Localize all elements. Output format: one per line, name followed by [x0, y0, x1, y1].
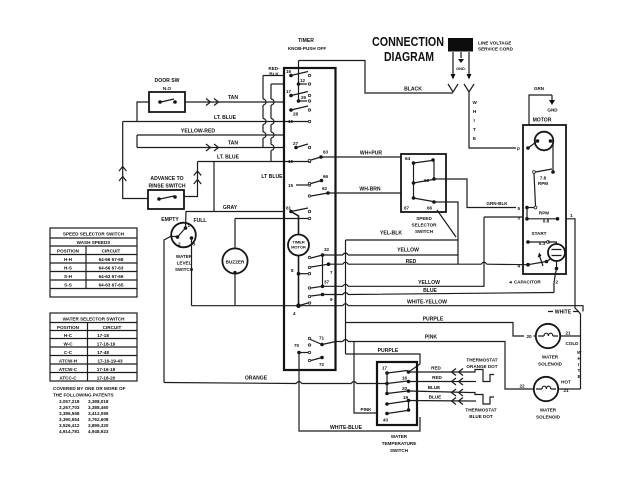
node patents list [53, 386, 126, 434]
svg-text:70: 70 [294, 343, 300, 348]
switch S1 door switch [149, 78, 185, 112]
svg-text:SWITCH: SWITCH [415, 229, 434, 234]
svg-text:3,762,608: 3,762,608 [88, 417, 109, 422]
svg-text:BLACK: BLACK [404, 87, 422, 93]
wire ORANGE water level to temp switch [164, 376, 387, 384]
svg-text:BLUE DOT: BLUE DOT [469, 414, 493, 419]
svg-text:SOLENOID: SOLENOID [536, 415, 561, 420]
svg-text:4: 4 [293, 311, 296, 316]
svg-text:KNOB-PUSH OFF: KNOB-PUSH OFF [288, 46, 326, 51]
svg-text:17: 17 [286, 89, 292, 94]
svg-text:15: 15 [288, 183, 294, 188]
svg-text:4,914,781: 4,914,781 [59, 429, 80, 434]
svg-text:TAN: TAN [228, 141, 238, 147]
svg-text:YEL-BLK: YEL-BLK [380, 231, 402, 237]
svg-text:17-18-19: 17-18-19 [97, 342, 116, 347]
svg-text:17: 17 [382, 366, 388, 371]
svg-text:SPEED: SPEED [416, 216, 432, 221]
table water selector switch [50, 313, 137, 381]
svg-text:ATCC-C: ATCC-C [59, 376, 77, 381]
node timer terminal 15 upper [284, 119, 311, 124]
svg-text:64-63 67-66: 64-63 67-66 [99, 274, 124, 279]
wire WH-BRN timer 62 to speed switch [328, 187, 401, 194]
svg-text:PURPLE: PURPLE [423, 317, 444, 323]
svg-text:3,386,568: 3,386,568 [59, 411, 80, 416]
svg-text:THERMOSTAT: THERMOSTAT [466, 358, 497, 363]
svg-text:YELLOW-RED: YELLOW-RED [181, 129, 215, 135]
svg-text:3,057,218: 3,057,218 [59, 399, 80, 404]
svg-text:CIRCUIT: CIRCUIT [102, 249, 121, 254]
svg-text:17-48: 17-48 [97, 350, 109, 355]
svg-text:16: 16 [286, 69, 292, 74]
wire riser to purple branch [345, 240, 347, 354]
svg-text:THE FOLLOWING PATENTS: THE FOLLOWING PATENTS [53, 393, 114, 398]
wire WHITE lead vertical to motor P [469, 92, 516, 148]
svg-text:LINE VOLTAGE: LINE VOLTAGE [478, 41, 511, 46]
svg-text:64-66 67-68: 64-66 67-68 [99, 257, 124, 262]
switch S5 water temperature switch [377, 362, 417, 453]
svg-text:22: 22 [519, 384, 525, 389]
wire PINK branch to temp switch 43 [354, 342, 377, 414]
svg-text:LT BLUE: LT BLUE [261, 174, 283, 180]
switch S4 water level switch [161, 217, 206, 272]
svg-text:RINSE SWITCH: RINSE SWITCH [148, 184, 185, 190]
svg-text:17-16-19: 17-16-19 [97, 367, 116, 372]
node timer terminal 62 [308, 186, 330, 197]
svg-text:GRAY: GRAY [223, 205, 238, 211]
svg-text:64-63 67-65: 64-63 67-65 [99, 283, 124, 288]
svg-text:3: 3 [193, 242, 196, 247]
wire BLUE temp switch to thermostat lower [409, 395, 471, 405]
node motor terminal P with protector [517, 132, 553, 152]
svg-text:E: E [473, 136, 476, 141]
node timer terminal 72 [308, 356, 324, 367]
wire service cord white lead arrow [467, 52, 472, 80]
wire common line to timer 4 and white-yellow [192, 300, 584, 312]
node timer terminal 9 [308, 293, 333, 302]
svg-text:WATER: WATER [540, 408, 557, 413]
svg-text:SPEED SELECTOR SWITCH: SPEED SELECTOR SWITCH [63, 232, 125, 237]
svg-text:YELLOW: YELLOW [397, 248, 419, 254]
ground GND of service cord [456, 52, 466, 71]
svg-text:LEVEL: LEVEL [177, 261, 192, 266]
svg-text:ADVANCE TO: ADVANCE TO [150, 176, 183, 182]
svg-text:GRN-BLK: GRN-BLK [486, 201, 508, 206]
wire WHITE-BLUE timer 70 to temp switch [299, 353, 420, 432]
svg-text:BUZZER: BUZZER [226, 260, 245, 265]
svg-text:RPM: RPM [539, 211, 549, 216]
svg-text:66: 66 [323, 174, 329, 179]
svg-text:PURPLE: PURPLE [378, 348, 399, 354]
svg-text:66: 66 [427, 206, 433, 211]
svg-text:CONNECTION: CONNECTION [372, 35, 444, 49]
wire BLACK from timer to service cord [299, 61, 454, 94]
svg-text:ATCW-H: ATCW-H [59, 359, 78, 364]
svg-text:RPM: RPM [538, 181, 548, 186]
node Y-junction white lead [464, 84, 474, 92]
buzzer BZ1 [222, 219, 284, 306]
svg-text:SELECTOR: SELECTOR [412, 223, 438, 228]
node timer terminal 15 lower [288, 183, 311, 188]
svg-text:WHITE-BLUE: WHITE-BLUE [330, 425, 363, 431]
wire YELLOW timer 37 to motor 3 [323, 217, 485, 286]
svg-text:ATCW-C: ATCW-C [59, 367, 78, 372]
node timer terminal 28 [289, 106, 310, 117]
node motor terminal 1 [566, 213, 579, 312]
svg-text:SWITCH: SWITCH [390, 448, 409, 453]
svg-text:3,388,018: 3,388,018 [88, 399, 109, 404]
wire WHITE to solenoids [548, 310, 582, 390]
svg-text:DIAGRAM: DIAGRAM [384, 50, 434, 64]
svg-text:1: 1 [188, 223, 191, 228]
svg-text:3,390,554: 3,390,554 [59, 417, 80, 422]
svg-text:67: 67 [404, 206, 410, 211]
wire left riser with connector arrows [119, 122, 148, 199]
svg-text:RED-: RED- [268, 66, 280, 71]
svg-text:POSITION: POSITION [57, 249, 80, 254]
svg-text:GRN: GRN [534, 86, 545, 91]
wire service cord black lead arrow [451, 52, 456, 80]
thermostat TH2 blue dot [465, 393, 496, 420]
svg-text:9: 9 [330, 297, 333, 302]
svg-text:3,412,095: 3,412,095 [88, 411, 109, 416]
svg-text:72: 72 [319, 362, 325, 367]
node timer terminal 16 [286, 69, 311, 77]
svg-text:START: START [532, 231, 547, 236]
node motor terminal 3 with RPM contact [484, 208, 559, 224]
svg-text:P: P [517, 147, 520, 152]
switch motor speed contact 7.8 RPM [533, 141, 555, 206]
svg-text:WH-BRN: WH-BRN [359, 187, 381, 193]
wire speed switch 65 to motor 5 GRN-BLK [446, 179, 516, 208]
node timer terminal 71 [308, 336, 324, 347]
svg-text:LT. BLUE: LT. BLUE [217, 155, 240, 161]
wire door switch left drop [137, 102, 149, 122]
node timer terminal 70 [294, 343, 311, 354]
wire YELLOW-RED to timer [137, 129, 284, 148]
svg-text:ORANGE: ORANGE [245, 376, 268, 382]
svg-text:H-C: H-C [64, 333, 73, 338]
svg-text:4,948,923: 4,948,923 [88, 429, 109, 434]
wire PURPLE branch to temp switch [346, 348, 421, 371]
svg-text:LT. BLUE: LT. BLUE [214, 115, 237, 121]
svg-text:17-16-19-43: 17-16-19-43 [97, 359, 122, 364]
wire BLUE temp switch to thermostat upper [409, 385, 471, 396]
svg-text:21: 21 [565, 331, 571, 336]
svg-text:GND: GND [547, 108, 558, 113]
solenoid L1 cold water solenoid [524, 324, 581, 367]
svg-text:3,526,412: 3,526,412 [59, 423, 80, 428]
svg-text:2: 2 [556, 280, 559, 285]
svg-text:WHITE: WHITE [555, 310, 572, 316]
node timer terminal 8 [291, 268, 311, 276]
wire PURPLE timer to cold solenoid 20 [346, 317, 537, 337]
node timer terminal 61 [284, 206, 311, 220]
wire water level 2 drop to orange [164, 237, 177, 383]
svg-text:CIRCUIT: CIRCUIT [103, 325, 122, 330]
svg-text:DOOR SW: DOOR SW [155, 78, 180, 84]
wire WH-PUR timer 63 to speed switch [321, 151, 401, 158]
node motor terminal 4 [518, 253, 552, 269]
wire water level 3 drop to timer 4 line [191, 238, 193, 306]
svg-text:21: 21 [563, 388, 569, 393]
svg-text:5: 5 [518, 206, 521, 211]
svg-text:C-C: C-C [64, 350, 73, 355]
wire riser B left of timer [271, 84, 284, 162]
table speed selector switch [50, 228, 137, 297]
svg-text:3,388,460: 3,388,460 [88, 405, 109, 410]
svg-text:20: 20 [402, 386, 408, 391]
node timer terminal 66 [308, 174, 328, 185]
thermostat TH1 orange dot [466, 358, 497, 382]
svg-text:2: 2 [178, 242, 181, 247]
node timer terminal 27 [293, 141, 311, 149]
svg-text:12: 12 [300, 78, 306, 83]
svg-text:71: 71 [319, 336, 325, 341]
svg-text:BLUE: BLUE [423, 288, 437, 294]
svg-text:THERMOSTAT: THERMOSTAT [465, 408, 496, 413]
switch motor start contact [526, 231, 549, 246]
svg-text:TIMER: TIMER [298, 38, 314, 44]
svg-text:17-18: 17-18 [97, 333, 109, 338]
svg-text:PINK: PINK [425, 335, 437, 341]
node motor terminal 5 [518, 206, 537, 211]
svg-text:ORANGE DOT: ORANGE DOT [466, 364, 497, 369]
svg-text:37: 37 [324, 280, 330, 285]
node timer terminal 32 [308, 247, 329, 286]
svg-text:28: 28 [293, 112, 299, 117]
svg-text:16: 16 [402, 376, 408, 381]
svg-text:32: 32 [324, 247, 330, 252]
svg-text:N.O: N.O [163, 86, 172, 91]
svg-text:WATER: WATER [391, 434, 408, 439]
connector J1 line voltage service cord [448, 38, 514, 52]
wire LT BLUE lower to timer [198, 155, 285, 162]
wire YEL-BLK speed switch 66 down [346, 202, 459, 264]
svg-text:FULL: FULL [193, 218, 206, 224]
svg-text:WATER SELECTOR SWITCH: WATER SELECTOR SWITCH [63, 317, 126, 322]
svg-text:PINK: PINK [361, 407, 373, 412]
timer T1 box [284, 38, 336, 370]
svg-text:HOT: HOT [561, 380, 571, 385]
svg-text:SERVICE CORD: SERVICE CORD [478, 47, 514, 52]
svg-text:63: 63 [323, 150, 329, 155]
wire TAN door switch to timer [185, 95, 284, 106]
wire RED temp switch to thermostat lower [409, 375, 471, 385]
svg-text:I: I [474, 118, 475, 123]
svg-text:YELLOW: YELLOW [418, 280, 440, 286]
svg-text:COLD: COLD [565, 341, 579, 346]
svg-text:7.8: 7.8 [540, 176, 547, 181]
wire RED-BLK riser A left of timer [263, 66, 284, 148]
svg-text:EMPTY: EMPTY [161, 217, 179, 223]
svg-text:S-H: S-H [64, 274, 73, 279]
svg-text:WASH SPEEDS: WASH SPEEDS [77, 240, 111, 245]
motor M1 main drive motor box [523, 118, 566, 275]
svg-text:20: 20 [526, 334, 532, 339]
svg-text:E: E [578, 374, 581, 379]
switch S2 advance to rinse switch [148, 176, 186, 209]
solenoid L2 hot water solenoid [519, 377, 580, 420]
svg-text:3: 3 [518, 216, 521, 221]
node Y-junction black lead [448, 84, 458, 92]
svg-text:26: 26 [301, 95, 307, 100]
svg-text:3,267,703: 3,267,703 [59, 405, 80, 410]
svg-text:TAN: TAN [228, 95, 238, 101]
node timer terminal 63 [308, 150, 328, 162]
svg-text:W: W [577, 350, 582, 355]
svg-text:H-S: H-S [64, 266, 72, 271]
node timer terminal 26 [297, 95, 311, 103]
svg-text:H-H: H-H [64, 257, 73, 262]
svg-text:MOTOR: MOTOR [533, 118, 552, 124]
node timer terminal 7 [308, 262, 333, 275]
node timer terminal 15 mid [284, 159, 311, 164]
svg-text:0.8: 0.8 [543, 219, 550, 224]
svg-text:BLUE: BLUE [429, 395, 442, 400]
wire RED timer 7 to motor 4 [329, 259, 529, 265]
svg-text:43: 43 [383, 418, 389, 423]
svg-text:I: I [578, 362, 579, 367]
svg-text:BLUE: BLUE [428, 385, 441, 390]
svg-text:17-18-20: 17-18-20 [97, 376, 116, 381]
svg-text:GND.: GND. [456, 66, 466, 71]
svg-text:27: 27 [293, 141, 299, 146]
svg-text:62: 62 [322, 186, 328, 191]
svg-text:64-66 67-63: 64-66 67-63 [99, 266, 124, 271]
svg-text:1: 1 [570, 213, 573, 218]
svg-text:WHITE-YELLOW: WHITE-YELLOW [407, 300, 447, 306]
svg-text:7: 7 [330, 270, 333, 275]
svg-text:WH+PUR: WH+PUR [360, 151, 383, 157]
node timer terminal 37 [308, 280, 329, 290]
wire right riser with connector arrows [184, 162, 201, 197]
svg-text:WATER: WATER [176, 254, 193, 259]
node timer terminal 12 [297, 61, 311, 102]
switch S3 speed selector switch [401, 154, 456, 237]
node timer terminal 17 [286, 89, 311, 97]
svg-text:TEMPERATURE: TEMPERATURE [382, 441, 417, 446]
capacitor C1 [508, 261, 559, 293]
coil start winding [548, 242, 565, 261]
svg-text:RED: RED [432, 375, 442, 380]
svg-text:SOLENOID: SOLENOID [538, 362, 563, 367]
wire YELLOW timer 32 to motor start [323, 248, 459, 256]
wire TAN lower to timer [137, 141, 284, 152]
svg-text:RED: RED [406, 259, 417, 265]
node title CONNECTION DIAGRAM [372, 35, 444, 64]
svg-text:3,899,320: 3,899,320 [88, 423, 109, 428]
svg-text:W: W [473, 100, 478, 105]
wire BLUE timer 9 to capacitor 2 [323, 288, 555, 295]
svg-text:8: 8 [291, 268, 294, 273]
svg-text:T: T [473, 127, 476, 132]
wire GRN motor ground [529, 86, 552, 125]
svg-text:RED: RED [431, 366, 441, 371]
svg-text:64: 64 [405, 156, 411, 161]
svg-text:19: 19 [403, 395, 409, 400]
ground GND at motor [547, 95, 558, 113]
wire GRAY water level to timer 61 [186, 162, 285, 229]
svg-text:T: T [578, 368, 581, 373]
svg-text:POSITION: POSITION [57, 325, 80, 330]
wire LT BLUE upper to timer [123, 115, 284, 122]
motor M2 timer motor [288, 212, 309, 306]
node timer terminal 4 [293, 302, 311, 316]
svg-text:S-S: S-S [64, 283, 72, 288]
svg-text:MOTOR: MOTOR [291, 245, 306, 250]
wire RED temp switch to thermostat upper [409, 366, 471, 376]
svg-text:COVERED BY ONE OR MORE OF: COVERED BY ONE OR MORE OF [53, 386, 126, 391]
svg-text:W-C: W-C [63, 342, 73, 347]
svg-text:WATER: WATER [542, 355, 559, 360]
svg-text:◄ CAPACITOR: ◄ CAPACITOR [508, 280, 541, 285]
wire PINK timer 71 to hot solenoid 22 [322, 335, 534, 390]
